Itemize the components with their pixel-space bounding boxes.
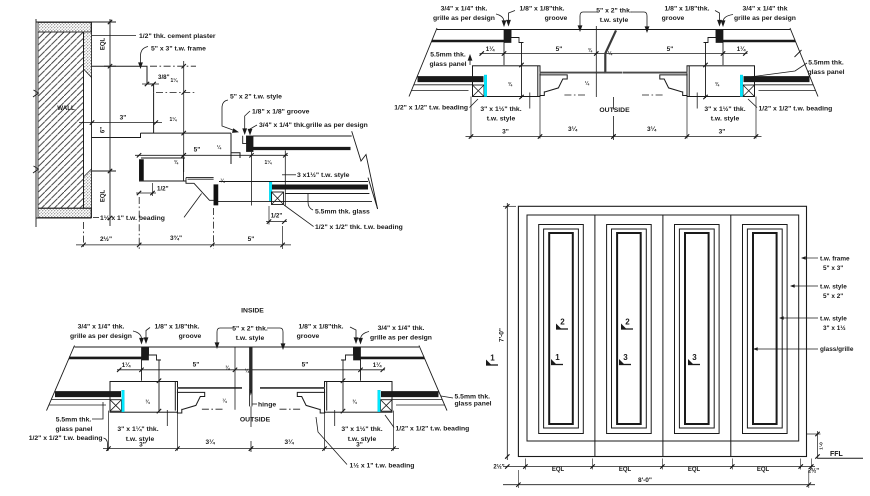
TR right half: panel inner edge double line xyxy=(688,66,690,97)
svg-text:1/8" x 1/8"thk.: 1/8" x 1/8"thk. xyxy=(155,324,200,331)
svg-text:3: 3 xyxy=(692,353,697,362)
TR leader 5.5mm left xyxy=(469,56,471,65)
TR right diagonal zigzag xyxy=(795,50,802,57)
svg-text:3: 3 xyxy=(623,353,628,362)
leaf 4 panel rect outer xyxy=(743,225,788,434)
svg-text:5" x 2" thk.: 5" x 2" thk. xyxy=(596,8,632,15)
svg-text:EQL: EQL xyxy=(757,467,770,473)
leader 1/8 groove xyxy=(245,111,250,133)
svg-text:3": 3" xyxy=(502,129,509,136)
bottom dim chain 1 xyxy=(503,466,815,468)
wall outer line xyxy=(35,19,37,227)
TR right half: glass thick band xyxy=(744,76,810,82)
svg-text:t.w. style: t.w. style xyxy=(711,116,740,123)
TR right half: bottom dim line xyxy=(614,136,762,138)
svg-text:3 x1½" t.w. style: 3 x1½" t.w. style xyxy=(297,171,350,179)
svg-text:1/2" thk. cement plaster: 1/2" thk. cement plaster xyxy=(139,33,216,40)
svg-text:1½ x 1" t.w. beading: 1½ x 1" t.w. beading xyxy=(100,214,165,222)
wall inner edge line xyxy=(83,32,85,208)
BL left half: glass under line 2 xyxy=(49,404,106,406)
ground line FFL xyxy=(818,457,863,459)
svg-text:2: 2 xyxy=(625,318,630,327)
dim 3/8 step xyxy=(142,83,159,85)
BL right half: grille thick band xyxy=(361,357,425,360)
vertical ext x285 xyxy=(284,151,286,206)
TR leader grille left xyxy=(496,14,504,25)
BL right half: grille hatch block xyxy=(354,348,361,361)
leaf 2 panel rect outer xyxy=(607,225,652,434)
svg-text:3¼: 3¼ xyxy=(647,125,657,133)
TR right half: x-box beading xyxy=(743,85,755,97)
wall cement plaster top band xyxy=(38,23,91,33)
TR center lower extension xyxy=(612,97,614,110)
svg-text:1¼: 1¼ xyxy=(737,46,746,53)
TR left half: glass under line 1 xyxy=(414,84,473,86)
svg-text:1/2": 1/2" xyxy=(271,213,283,220)
svg-text:3" x 1½" thk.: 3" x 1½" thk. xyxy=(704,105,745,113)
wall top edge xyxy=(36,21,92,23)
BL left half: block inner edge vertical xyxy=(141,359,143,380)
dimension 3in horizontal xyxy=(79,122,162,124)
leader 1/2in thk cement plaster xyxy=(92,34,136,36)
BL right half: glass under line 2 xyxy=(396,404,445,406)
bottom dimension chain xyxy=(76,244,291,246)
leader 3x1.5 style xyxy=(282,174,296,176)
svg-text:1½ x 1" t.w. beading: 1½ x 1" t.w. beading xyxy=(350,462,415,470)
svg-text:1/2" x 1/2" thk. t.w. beading: 1/2" x 1/2" thk. t.w. beading xyxy=(315,224,403,231)
leader tw frame xyxy=(802,257,818,259)
wall break mark lower xyxy=(33,166,39,173)
svg-text:5": 5" xyxy=(193,362,200,369)
BL center extension to dim xyxy=(250,406,252,427)
BL leader hinge xyxy=(253,403,258,405)
svg-text:OUTSIDE: OUTSIDE xyxy=(599,107,630,114)
svg-text:5" x 2" t.w. style: 5" x 2" t.w. style xyxy=(230,94,282,101)
svg-text:EQL: EQL xyxy=(101,38,107,51)
svg-text:5": 5" xyxy=(667,46,674,53)
BL left half: stile inner vertical xyxy=(158,359,160,412)
svg-text:3/4" x 1/4" thk.: 3/4" x 1/4" thk. xyxy=(441,6,488,13)
leader 5.5mm glass xyxy=(308,194,313,210)
svg-text:3/4" x 1/4" thk: 3/4" x 1/4" thk xyxy=(743,6,788,13)
BL left half: top face line xyxy=(75,346,252,348)
frame centerline dashdot mid xyxy=(156,91,196,93)
svg-text:1/8" x 1/8"thk.: 1/8" x 1/8"thk. xyxy=(520,6,565,13)
svg-text:glass panel: glass panel xyxy=(55,426,92,433)
leaf 1 panel rect mid xyxy=(544,229,579,428)
leaf 1 panel rect inner thick xyxy=(549,233,573,424)
TR left half: panel rect xyxy=(473,66,541,97)
BL leader beading right xyxy=(385,415,394,428)
TR right half: block inner edge vertical xyxy=(722,43,724,66)
svg-text:1/2" x 1/2" t.w. beading: 1/2" x 1/2" t.w. beading xyxy=(394,105,468,112)
row2 right edge xyxy=(183,158,185,181)
svg-text:3": 3" xyxy=(139,442,146,449)
svg-text:1/2" x 1/2" t.w. beading: 1/2" x 1/2" t.w. beading xyxy=(759,106,833,113)
svg-text:5" x 2" thk.: 5" x 2" thk. xyxy=(232,326,268,333)
svg-text:1¼: 1¼ xyxy=(171,77,179,84)
TR left half: moulding profile xyxy=(539,75,567,96)
TR right half: extension panel inner xyxy=(686,97,688,139)
extension line at frame top xyxy=(104,65,116,67)
leaf division line 1 xyxy=(594,215,596,457)
leader 1/2x1/2 beading xyxy=(284,205,314,227)
svg-text:groove: groove xyxy=(545,15,568,22)
svg-text:1/2": 1/2" xyxy=(157,186,169,193)
svg-text:EQL: EQL xyxy=(101,190,107,203)
svg-text:1: 1 xyxy=(555,353,560,362)
leaf 2 panel rect inner thick xyxy=(617,233,641,424)
TR right half: second face / dim line xyxy=(614,53,748,55)
svg-text:groove: groove xyxy=(179,333,202,340)
BL left half: extension panel outer xyxy=(108,411,110,451)
svg-text:3": 3" xyxy=(120,115,127,122)
svg-text:3" x 1¼" thk.: 3" x 1¼" thk. xyxy=(117,425,158,433)
svg-text:3/4" x 1/4" thk.: 3/4" x 1/4" thk. xyxy=(78,324,125,331)
svg-text:5": 5" xyxy=(556,46,563,53)
TR right half: groove step xyxy=(704,30,717,43)
BL leader grille left xyxy=(133,331,142,343)
svg-text:groove: groove xyxy=(662,15,685,22)
BL left half: groove step xyxy=(149,348,162,361)
svg-text:t.w. style: t.w. style xyxy=(600,17,629,24)
TR right half: panel rect xyxy=(687,66,755,97)
TR right half: glass under line 1 xyxy=(755,84,814,86)
BL leader 1.5x1 beading xyxy=(316,417,347,465)
svg-text:hinge: hinge xyxy=(258,402,276,409)
bottom dim chain 2 (8ft) xyxy=(503,484,815,486)
TR leader groove left xyxy=(509,11,516,25)
TR left half: x-box beading xyxy=(473,85,485,97)
svg-text:t.w. style: t.w. style xyxy=(236,335,265,342)
BL left half: x-box beading xyxy=(110,400,122,412)
svg-text:t.w. frame: t.w. frame xyxy=(820,256,850,263)
moulding profile xyxy=(186,178,214,201)
wall plaster right strip lower xyxy=(84,169,92,208)
svg-text:5": 5" xyxy=(194,147,201,154)
BL style bracket left xyxy=(217,328,234,347)
TR right half: dashdot centerline xyxy=(642,94,665,96)
BL leader 5.5mm left xyxy=(92,402,103,419)
leaf division line 3 xyxy=(730,215,732,457)
TR left half: bottom dim line xyxy=(466,136,614,138)
leader 5x2 style xyxy=(222,100,237,132)
TR left half: top face line xyxy=(437,29,614,31)
svg-text:3" x 1½: 3" x 1½ xyxy=(823,324,846,332)
TR right half: glass under line 2 xyxy=(759,90,816,92)
svg-text:grille as per design: grille as per design xyxy=(70,333,132,340)
svg-text:5.5mm thk.: 5.5mm thk. xyxy=(56,417,92,424)
glass cyan bar xyxy=(269,182,272,201)
svg-text:2½": 2½" xyxy=(100,235,112,243)
BL left half: panel rect xyxy=(110,382,178,413)
svg-text:FFL: FFL xyxy=(830,451,844,458)
ext dashdot 2 xyxy=(138,197,140,249)
svg-text:1/8" x 1/8"thk.: 1/8" x 1/8"thk. xyxy=(299,324,344,331)
svg-text:3": 3" xyxy=(356,442,363,449)
svg-text:3" x 1½" thk.: 3" x 1½" thk. xyxy=(480,105,521,113)
svg-text:glass panel: glass panel xyxy=(455,401,492,408)
BL leader 5.5mm right xyxy=(441,396,453,398)
svg-text:1: 1 xyxy=(490,354,495,363)
svg-text:2½": 2½" xyxy=(808,468,819,475)
leader 5x3 frame xyxy=(141,47,149,67)
TR left half: extension panel inner xyxy=(539,97,541,139)
svg-text:1¼: 1¼ xyxy=(486,46,495,53)
BL right half: top face line xyxy=(251,346,419,348)
TR right half: cyan glass edge xyxy=(740,75,743,97)
svg-text:1¼: 1¼ xyxy=(122,362,131,369)
FFL step dim xyxy=(807,433,821,435)
wall bottom edge xyxy=(36,217,92,219)
BL leader style right xyxy=(334,410,336,426)
leaf 4 panel rect inner thick xyxy=(753,233,777,424)
BL hinge heavy bar xyxy=(250,348,252,390)
diagonal break right upper xyxy=(352,131,378,209)
BL leader grille right xyxy=(361,332,370,343)
svg-text:5.5mm thk.: 5.5mm thk. xyxy=(455,394,491,401)
beading bar black 2 xyxy=(214,185,218,206)
svg-text:1/2" x 1/2" t.w. beading: 1/2" x 1/2" t.w. beading xyxy=(29,435,103,442)
svg-text:glass panel: glass panel xyxy=(429,61,466,68)
BL left half: second face / dim line xyxy=(117,369,251,371)
TR leader style left xyxy=(529,93,531,109)
leader tw style 3x1.5 xyxy=(780,317,818,319)
TR left half: extension panel outer xyxy=(470,97,472,139)
leaf 3 panel rect inner thick xyxy=(685,233,709,424)
svg-text:5.5mm thk. glass: 5.5mm thk. glass xyxy=(315,209,370,216)
leaf 2 panel rect mid xyxy=(612,229,647,428)
BL right half: moulding profile xyxy=(297,392,325,413)
BL right half: glass under line 1 xyxy=(392,399,442,401)
TR left half: panel inner edge double line xyxy=(537,66,539,97)
BL left half: grille hatch block xyxy=(142,348,149,361)
glass row top line xyxy=(219,181,368,183)
elevation outer frame xyxy=(518,206,806,456)
leaf division line 2 xyxy=(662,215,664,457)
leaf 3 panel rect mid xyxy=(679,229,714,428)
TR left half: second face / dim line xyxy=(480,53,614,55)
BL right half: diagonal break line xyxy=(419,346,447,411)
svg-text:6": 6" xyxy=(101,127,107,133)
style row right edge xyxy=(231,133,240,164)
svg-text:grille as per design: grille as per design xyxy=(370,335,432,342)
BL right half: panel inner edge double line xyxy=(326,382,328,411)
vertical dim 7ft line xyxy=(506,203,508,460)
svg-text:5": 5" xyxy=(248,236,255,243)
svg-text:3/4" x 1/4" thk.grille as per: 3/4" x 1/4" thk.grille as per design xyxy=(259,122,368,129)
BL leader groove left xyxy=(146,328,150,342)
TR right half: extension panel outer xyxy=(755,97,757,139)
svg-text:2½": 2½" xyxy=(493,464,504,471)
svg-text:5.5mm thk.: 5.5mm thk. xyxy=(430,52,466,59)
BL left half: moulding profile xyxy=(177,392,205,413)
BL hinge knuckle xyxy=(249,389,252,396)
BL left half: dashdot centerline xyxy=(200,408,223,410)
TR right half: leaf face heavy line xyxy=(623,72,688,74)
BL right half: block inner edge vertical xyxy=(360,359,362,380)
BL right half: glass thick band xyxy=(381,391,439,397)
BL left half: panel inner edge double line xyxy=(174,382,176,411)
TR center joint heavy lines xyxy=(604,54,606,74)
TR left half: block inner edge vertical xyxy=(503,43,505,66)
TR left half: grille hatch block xyxy=(504,30,511,43)
svg-text:1¼: 1¼ xyxy=(265,159,273,166)
BL leader beading left xyxy=(104,438,108,451)
ext solid 4 xyxy=(282,226,284,249)
svg-text:glass/grille: glass/grille xyxy=(820,346,854,353)
wall plaster right strip upper xyxy=(84,32,92,78)
extension line top xyxy=(92,21,117,23)
dim 1/2 beading xyxy=(266,221,287,223)
TR leader beading right xyxy=(748,99,757,108)
BL left half: glass under line 1 xyxy=(52,399,111,401)
head frame profile xyxy=(92,66,154,92)
extension line lower xyxy=(92,170,117,172)
BL leader style left xyxy=(166,410,168,426)
dim 1/2 step xyxy=(136,192,156,194)
BL right half: cyan glass edge xyxy=(378,390,381,412)
TR style bracket left xyxy=(580,12,598,30)
svg-text:5" x 3" t.w. frame: 5" x 3" t.w. frame xyxy=(151,46,206,53)
svg-text:3¾": 3¾" xyxy=(170,234,182,242)
svg-text:groove: groove xyxy=(297,333,320,340)
BL center joint offset vertical xyxy=(234,347,236,410)
grille panel top line xyxy=(253,135,352,137)
svg-text:8'-0": 8'-0" xyxy=(638,477,652,484)
svg-text:EQL: EQL xyxy=(552,467,565,473)
svg-text:EQL: EQL xyxy=(619,467,632,473)
svg-text:3/8": 3/8" xyxy=(158,74,170,81)
svg-text:grille as per design: grille as per design xyxy=(734,15,796,22)
diagonal break lower xyxy=(368,178,378,209)
vertical ext x251 xyxy=(251,152,253,206)
svg-text:3¼: 3¼ xyxy=(568,125,578,133)
TR right half: moulding profile xyxy=(660,75,688,96)
tick before beading text xyxy=(93,217,99,219)
svg-text:t.w. style: t.w. style xyxy=(820,316,847,323)
vertical dimension line EQL/6/EQL xyxy=(109,19,111,226)
svg-text:1/8" x 1/8" groove: 1/8" x 1/8" groove xyxy=(252,109,310,116)
BL right half: panel rect xyxy=(325,382,393,413)
x-box beading section xyxy=(272,192,284,205)
BL style bracket right xyxy=(267,328,283,348)
leader tw style 5x2 xyxy=(791,285,818,287)
TR leader beading left xyxy=(470,99,479,108)
svg-text:3¼: 3¼ xyxy=(284,438,294,446)
svg-text:5" x 2": 5" x 2" xyxy=(823,293,843,300)
second style row rect xyxy=(141,157,185,159)
moulding top double line xyxy=(186,177,214,179)
leaf 1 panel rect outer xyxy=(539,225,584,434)
TR left half: diagonal break line xyxy=(409,28,437,97)
BL right half: x-box beading xyxy=(381,400,393,412)
svg-text:EQL: EQL xyxy=(688,467,701,473)
frame bottom ledge xyxy=(92,133,141,137)
TR leader style right xyxy=(696,93,698,109)
svg-text:5" x 3": 5" x 3" xyxy=(823,265,843,272)
TR right half: grille thick band xyxy=(723,40,796,43)
BL right half: extension panel outer xyxy=(393,411,395,451)
BL right half: dashdot centerline xyxy=(280,408,303,410)
BL left half: cyan glass edge xyxy=(122,390,125,412)
TR style bracket right xyxy=(631,12,647,31)
ext dashdot 1 xyxy=(83,222,85,249)
style row top line xyxy=(141,132,232,134)
glass under line 1 xyxy=(285,193,369,195)
wall brick hatch xyxy=(38,32,84,208)
svg-text:grille as per design: grille as per design xyxy=(433,15,495,22)
BL left half: glass thick band xyxy=(55,391,121,397)
TR left half: leaf face heavy line xyxy=(540,72,605,74)
grille panel thick band xyxy=(247,147,351,150)
beading bar black 1 xyxy=(139,160,143,181)
TR left half: grille thick band xyxy=(432,40,505,43)
TR left half: cyan glass edge xyxy=(484,75,487,97)
TR leader groove right xyxy=(715,11,720,25)
leader grille xyxy=(250,125,257,134)
grille hatch block xyxy=(247,136,254,152)
TR leader 5.5mm right xyxy=(750,63,807,77)
BL right half: groove step xyxy=(341,348,354,361)
svg-text:5.5mm thk.: 5.5mm thk. xyxy=(808,60,844,67)
elevation inner frame xyxy=(527,215,799,441)
BL right half: bottom dim line xyxy=(251,448,399,450)
ext lines bottom chain xyxy=(524,459,526,470)
svg-text:t.w. style: t.w. style xyxy=(487,116,516,123)
TR left half: glass under line 2 xyxy=(412,90,469,92)
svg-text:3" x 1½" thk.: 3" x 1½" thk. xyxy=(341,425,382,433)
leader glass/grille xyxy=(754,348,818,350)
svg-text:1¼: 1¼ xyxy=(170,116,178,123)
BL leader groove right xyxy=(350,327,356,342)
svg-text:OUTSIDE: OUTSIDE xyxy=(240,417,271,424)
BL right half: stile inner vertical xyxy=(342,359,344,412)
TR right half: diagonal break line xyxy=(790,28,818,97)
TR right half: stile inner vertical xyxy=(705,43,707,99)
ext dashdot 3 xyxy=(213,208,215,249)
TR left half: dashdot centerline xyxy=(562,94,585,96)
BL right half: leaf face heavy line xyxy=(260,387,325,389)
svg-text:1/8" x 1/8"thk.: 1/8" x 1/8"thk. xyxy=(665,6,710,13)
svg-text:t.w. style: t.w. style xyxy=(820,284,847,291)
frame centerline dashdot top xyxy=(150,65,196,67)
BL left half: leaf face heavy line xyxy=(177,387,242,389)
TR leader grille right xyxy=(723,15,733,26)
wall face line xyxy=(91,22,93,218)
TR left half: glass thick band xyxy=(418,76,484,82)
svg-text:WALL: WALL xyxy=(57,105,75,112)
BL center hinge lines xyxy=(249,347,251,406)
svg-text:5": 5" xyxy=(302,362,309,369)
svg-text:7'-0": 7'-0" xyxy=(499,328,506,342)
TR left half: stile inner vertical xyxy=(521,43,523,99)
moulding bottom edge xyxy=(185,181,187,183)
BL left half: extension panel inner xyxy=(177,411,179,451)
svg-text:2: 2 xyxy=(560,318,565,327)
TR right half: top face line xyxy=(614,29,791,31)
leader 1.5x1 beading xyxy=(184,194,202,218)
svg-text:INSIDE: INSIDE xyxy=(241,308,264,315)
leaf 3 panel rect outer xyxy=(675,225,720,434)
svg-text:3": 3" xyxy=(719,129,726,136)
svg-text:1¼: 1¼ xyxy=(373,362,382,369)
BL right half: extension panel inner xyxy=(324,411,326,451)
TR right half: grille hatch block xyxy=(716,30,723,43)
svg-text:1/2" x 1/2" t.w. beading: 1/2" x 1/2" t.w. beading xyxy=(396,426,470,433)
groove U notch xyxy=(243,136,247,144)
svg-text:3/4" x 1/4" thk.: 3/4" x 1/4" thk. xyxy=(378,325,425,332)
